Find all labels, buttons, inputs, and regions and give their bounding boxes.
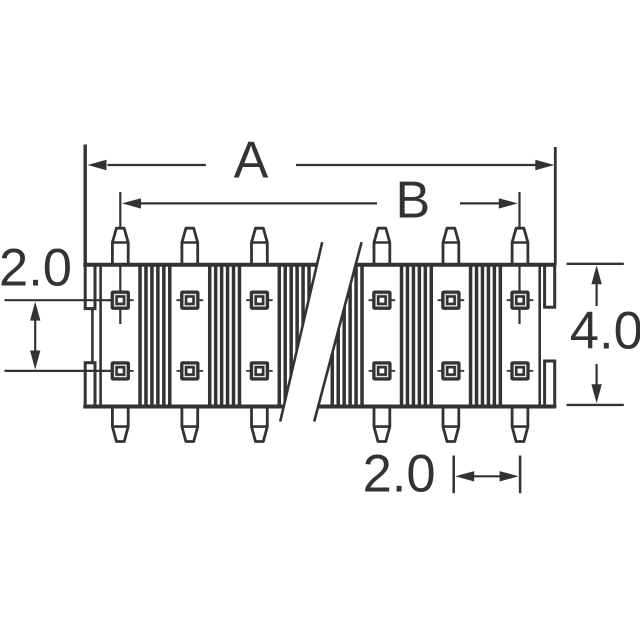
dim A line right segment xyxy=(296,164,536,166)
pad row1-col2 xyxy=(177,291,204,310)
hatch band 6 xyxy=(471,265,501,406)
pin bottom-1 xyxy=(112,407,128,442)
pin top-3 xyxy=(252,228,268,264)
dim 2.0-bottom arrow left xyxy=(455,471,474,481)
dim 4.0 ext top xyxy=(567,263,624,265)
pad row1-col6 xyxy=(507,291,534,310)
pad row2-col3 xyxy=(246,361,273,380)
dim B arrow right xyxy=(499,198,518,208)
dim A arrow right xyxy=(535,160,554,170)
wire body-bottom-edge xyxy=(83,405,556,409)
pin bottom-5 xyxy=(443,407,459,442)
pad row1-col1 xyxy=(107,291,134,310)
wire body-top-edge xyxy=(83,263,556,267)
tab left-bottom xyxy=(85,363,95,407)
dim B line left segment xyxy=(141,202,377,204)
hatch band 4 xyxy=(332,265,362,406)
dim A line left segment xyxy=(108,164,206,166)
pin bottom-4 xyxy=(374,407,390,442)
pad row2-col6 xyxy=(507,361,534,380)
dim B line right segment xyxy=(460,202,499,204)
wire A-extension-line-right xyxy=(554,147,557,265)
pad row1-col4 xyxy=(369,291,396,310)
pin bottom-2 xyxy=(182,407,198,442)
tab right-bottom xyxy=(545,361,555,407)
dim 4.0 ext bottom xyxy=(567,404,624,406)
dim 4.0 arrow up xyxy=(591,265,601,284)
pad row1-col3 xyxy=(246,291,273,310)
wire B-extension-line-left xyxy=(119,192,121,324)
dim A arrow left xyxy=(88,160,107,170)
pin top-6 xyxy=(512,228,528,264)
dim B arrow left xyxy=(122,198,141,208)
wire left-cap-line-2 xyxy=(99,263,102,408)
dim 4.0 arrow down xyxy=(591,384,601,403)
dim 2.0-bottom tick right xyxy=(519,456,522,494)
break white band xyxy=(280,242,361,421)
pin top-2 xyxy=(182,228,198,264)
break diagonal 1 xyxy=(280,242,322,421)
dim 4.0 shaft bottom xyxy=(595,364,597,388)
svg-text:A: A xyxy=(234,132,269,190)
dim 2.0-bottom arrow right xyxy=(500,471,519,481)
dim 2.0-left shaft xyxy=(34,318,36,352)
pin top-1 xyxy=(112,228,128,264)
hatch band 1 xyxy=(140,265,170,406)
pad row2-col4 xyxy=(369,361,396,380)
pad row2-col1 xyxy=(107,361,134,380)
wire right-cap-line xyxy=(538,263,541,408)
pad row2-col5 xyxy=(438,361,465,380)
svg-text:2.0: 2.0 xyxy=(363,444,436,503)
pin top-4 xyxy=(374,228,390,264)
dim 2.0-left leader row1 xyxy=(5,299,111,301)
break diagonal 2 xyxy=(314,242,361,421)
pin bottom-3 xyxy=(252,407,268,442)
svg-text:B: B xyxy=(396,171,431,229)
hatch band 2 xyxy=(210,265,240,406)
dim 2.0-bottom shaft xyxy=(472,475,502,477)
wire left-cap-line-1 xyxy=(91,263,94,408)
pin top-5 xyxy=(443,228,459,264)
wire B-extension-line-right xyxy=(518,192,520,324)
dim 2.0-left leader row2 xyxy=(5,370,111,372)
hatch band 3 xyxy=(279,265,309,406)
dim 4.0 shaft top xyxy=(595,282,597,306)
hatch band 5 xyxy=(402,265,432,406)
svg-text:2.0: 2.0 xyxy=(0,239,72,298)
pad row1-col5 xyxy=(438,291,465,310)
pin bottom-6 xyxy=(512,407,528,442)
tab right-top xyxy=(545,265,555,307)
svg-text:4.0: 4.0 xyxy=(570,302,640,361)
dim 2.0-left arrow up xyxy=(30,302,40,321)
tab left-top xyxy=(85,265,95,309)
wire A-extension-line-left xyxy=(83,145,86,265)
pad row2-col2 xyxy=(177,361,204,380)
dim 2.0-left arrow down xyxy=(30,351,40,370)
dim 2.0-bottom tick left xyxy=(452,456,455,494)
